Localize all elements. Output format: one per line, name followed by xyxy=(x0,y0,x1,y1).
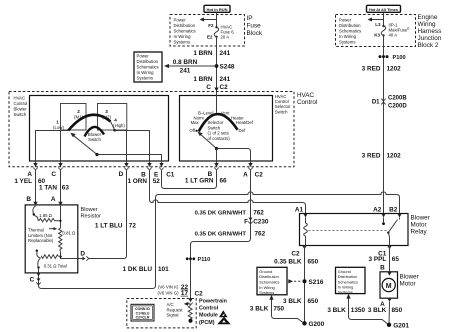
svg-text:66: 66 xyxy=(220,178,228,185)
svg-text:G200: G200 xyxy=(309,321,325,328)
svg-text:3 RED: 3 RED xyxy=(362,65,381,72)
svg-text:Harness: Harness xyxy=(418,28,442,35)
Hot At All Times label xyxy=(367,5,401,12)
ground G200 xyxy=(302,321,306,325)
blower switch wiper xyxy=(70,133,98,156)
Powertrain Control Module (PCM) label xyxy=(199,298,227,326)
wire 1 DK BLU 101 (resistor C to relay B2) xyxy=(39,192,400,289)
power distribution box (left) xyxy=(134,52,162,82)
svg-text:Limiters (Not: Limiters (Not xyxy=(28,233,53,238)
power distribution note (in fuse block) xyxy=(174,18,196,45)
svg-text:C2=CLR: C2=CLR xyxy=(136,316,150,320)
svg-text:1 YEL: 1 YEL xyxy=(14,178,32,185)
wire 1 LT BLU 72 (pin D to resistor D) xyxy=(89,170,127,259)
svg-text:Motor: Motor xyxy=(400,280,416,287)
svg-text:241: 241 xyxy=(220,50,231,57)
svg-text:(1 of 2 sets: (1 of 2 sets xyxy=(208,131,229,136)
svg-text:3 BLK: 3 BLK xyxy=(283,298,302,305)
svg-text:L3: L3 xyxy=(375,22,381,27)
svg-text:Systems: Systems xyxy=(137,76,153,81)
pin letters xyxy=(27,171,263,178)
svg-text:Switch: Switch xyxy=(208,125,221,130)
svg-text:C: C xyxy=(206,84,211,91)
svg-text:A1: A1 xyxy=(295,206,304,213)
svg-text:101: 101 xyxy=(158,266,169,273)
svg-text:1 DK BLU: 1 DK BLU xyxy=(123,266,153,273)
svg-text:IP: IP xyxy=(247,15,253,22)
blower switch contact window M2 xyxy=(98,104,127,131)
svg-text:Systems: Systems xyxy=(259,290,274,295)
Hot In RUN label xyxy=(204,5,230,12)
selector position labels xyxy=(189,111,253,134)
svg-text:Wiring: Wiring xyxy=(418,21,437,28)
selector wiper xyxy=(198,132,219,150)
relay contact A2 xyxy=(383,218,385,223)
svg-text:750: 750 xyxy=(273,306,284,313)
thermal limiter 2 xyxy=(37,252,41,258)
svg-text:B2: B2 xyxy=(389,206,398,213)
svg-text:Switch: Switch xyxy=(14,112,27,117)
svg-text:Systems: Systems xyxy=(338,289,353,294)
svg-text:A2: A2 xyxy=(373,206,382,213)
svg-text:3 RED: 3 RED xyxy=(362,152,381,159)
svg-text:C2: C2 xyxy=(291,251,300,258)
connector C200B / C200D xyxy=(372,96,408,110)
svg-text:0.81 Ω: 0.81 Ω xyxy=(63,231,77,236)
wire 1 ORN 52 (pin B to relay coil A1) xyxy=(150,170,306,214)
blower switch contact arc xyxy=(68,115,110,131)
svg-text:D: D xyxy=(80,250,85,257)
HVAC Control label xyxy=(297,92,317,106)
svg-text:Off: Off xyxy=(189,128,195,133)
wire 3 PPL 65 (relay C1 to blower motor B) xyxy=(389,246,391,272)
svg-text:0.8 BRN: 0.8 BRN xyxy=(173,59,198,66)
svg-text:63: 63 xyxy=(62,184,70,191)
arrow to power distribution note xyxy=(200,18,217,22)
svg-text:Schematics: Schematics xyxy=(259,280,279,285)
arrow to power distribution note xyxy=(368,18,384,22)
blower motor relay box xyxy=(300,214,409,246)
IP fuse block (dashed box) xyxy=(170,15,245,47)
resistor element 0.81 ohm (vertical) xyxy=(59,228,62,251)
svg-text:Power: Power xyxy=(339,18,352,23)
thermal limiter 1 xyxy=(33,206,36,214)
svg-text:1 LT BLU: 1 LT BLU xyxy=(95,223,123,230)
wire (maxifuse feed) xyxy=(383,13,385,27)
svg-text:A/C: A/C xyxy=(167,302,174,307)
svg-text:40 A: 40 A xyxy=(389,33,398,38)
svg-text:Power: Power xyxy=(137,54,150,59)
svg-text:1 BRN: 1 BRN xyxy=(193,50,213,57)
connector pins at HVAC control C1/C2 xyxy=(33,161,252,170)
svg-text:C2: C2 xyxy=(255,171,264,178)
svg-text:762: 762 xyxy=(255,230,266,237)
fuse I/P-1 MaxiFuse 40A xyxy=(374,22,410,38)
svg-text:B: B xyxy=(26,196,31,203)
svg-text:Control: Control xyxy=(297,99,317,106)
svg-text:D: D xyxy=(119,171,124,178)
svg-text:Distribution: Distribution xyxy=(339,23,361,28)
svg-text:3: 3 xyxy=(105,109,108,114)
A/C request signal note xyxy=(167,302,184,318)
svg-text:3 PPL: 3 PPL xyxy=(369,256,387,263)
inline connector at resistor D xyxy=(82,256,88,260)
svg-text:Systems: Systems xyxy=(174,40,190,45)
svg-text:650: 650 xyxy=(308,259,319,266)
svg-text:241: 241 xyxy=(220,76,231,83)
wire 1 BRN 241 (fuse to S248) xyxy=(216,37,218,92)
svg-text:Blower: Blower xyxy=(411,215,430,222)
svg-text:Def: Def xyxy=(239,128,246,133)
svg-text:1 BRN: 1 BRN xyxy=(193,76,213,83)
svg-text:Distribution: Distribution xyxy=(174,23,196,28)
relay movable arm (to B2, NC) xyxy=(388,220,398,234)
svg-text:Switch: Switch xyxy=(88,137,101,142)
svg-text:1350: 1350 xyxy=(351,307,366,314)
selector off contact xyxy=(195,130,197,132)
svg-text:241: 241 xyxy=(180,67,191,74)
svg-text:C2: C2 xyxy=(220,84,229,91)
svg-text:1 TAN: 1 TAN xyxy=(39,184,57,191)
svg-text:Schematics: Schematics xyxy=(137,65,159,70)
svg-text:Request: Request xyxy=(167,307,184,312)
wire: BRN feed into selector arc xyxy=(216,92,218,113)
IP Fuse Block label xyxy=(247,15,263,37)
position labels xyxy=(53,109,125,130)
svg-text:52: 52 xyxy=(153,178,161,185)
svg-text:3 BLK: 3 BLK xyxy=(368,307,387,314)
svg-text:Power: Power xyxy=(174,18,187,23)
selector switch note xyxy=(208,120,231,141)
wire: M2 window to pin D xyxy=(126,130,128,161)
svg-text:3 BLK: 3 BLK xyxy=(327,307,346,314)
ground distribution box (right) xyxy=(336,267,366,294)
resistor element 0.31 ohm total xyxy=(61,251,78,258)
wire 1 LT GRN 66 (selector B to blower switch E) xyxy=(162,170,217,189)
wire: wiper to pin A xyxy=(217,149,251,162)
svg-text:S248: S248 xyxy=(220,63,235,70)
svg-text:Motor: Motor xyxy=(411,222,427,229)
arrow to 0.81 element xyxy=(49,227,57,230)
splice S216 xyxy=(303,279,307,283)
wire 0.35 BLK 650 (relay C2 to S216) xyxy=(304,246,306,324)
svg-text:A: A xyxy=(51,196,56,203)
svg-text:Control: Control xyxy=(199,306,219,312)
svg-text:Resistor: Resistor xyxy=(81,213,102,219)
svg-text:4: 4 xyxy=(114,118,117,123)
selector switch box xyxy=(180,96,273,162)
relay common to C1 xyxy=(388,233,389,246)
svg-text:Selector: Selector xyxy=(208,120,224,125)
PCM internal resistance xyxy=(188,306,192,320)
svg-text:20 A: 20 A xyxy=(221,35,230,40)
svg-text:3 BLK: 3 BLK xyxy=(250,306,269,313)
svg-text:1202: 1202 xyxy=(387,152,402,159)
warning triangles xyxy=(219,310,228,317)
svg-text:Switch: Switch xyxy=(275,109,288,114)
wire: high contact to pin B xyxy=(115,131,150,162)
svg-text:Engine: Engine xyxy=(418,14,438,21)
relay contact B2 xyxy=(399,218,401,220)
svg-text:(Low): (Low) xyxy=(53,125,64,130)
svg-text:M: M xyxy=(386,283,392,290)
svg-text:1 ORN: 1 ORN xyxy=(127,178,147,185)
svg-text:of contacts): of contacts) xyxy=(208,136,231,141)
svg-text:C: C xyxy=(51,171,56,178)
selector switch contact arc xyxy=(199,114,238,131)
svg-text:(PCM): (PCM) xyxy=(199,320,215,326)
svg-text:C230: C230 xyxy=(253,218,269,225)
svg-text:762: 762 xyxy=(253,210,264,217)
svg-text:1.85 Ω: 1.85 Ω xyxy=(39,213,53,218)
dashed link to S216 xyxy=(288,279,302,283)
svg-text:72: 72 xyxy=(129,223,137,230)
svg-text:(V6 VIN K): (V6 VIN K) xyxy=(158,285,179,290)
svg-text:Schematics: Schematics xyxy=(174,29,196,34)
svg-text:Schematics: Schematics xyxy=(338,279,358,284)
blower motor xyxy=(380,272,419,302)
wire: M1 window to pin C xyxy=(60,130,62,161)
svg-text:A: A xyxy=(243,171,248,178)
thermal limiters note xyxy=(28,228,54,244)
svg-text:Blower: Blower xyxy=(400,273,419,280)
svg-text:0.35 DK GRN/WHT: 0.35 DK GRN/WHT xyxy=(195,231,247,237)
wire 3 BLK 750 (ground distribution to G200) xyxy=(272,298,304,323)
wire 3 RED 1202 (maxifuse to relay A2) xyxy=(383,35,385,213)
svg-text:1: 1 xyxy=(56,120,59,125)
engine wiring harness junction block 2 (dashed box) xyxy=(336,15,416,47)
wire 1 YEL 60 (pin A to resistor B) xyxy=(35,170,37,202)
thermal limiter 3 xyxy=(38,258,41,267)
svg-text:C2: C2 xyxy=(195,290,204,297)
svg-text:Block 2: Block 2 xyxy=(418,42,439,49)
svg-text:Ground: Ground xyxy=(338,269,351,274)
svg-text:C: C xyxy=(30,276,35,283)
wire: low contact to pin A xyxy=(36,131,69,162)
svg-text:C1: C1 xyxy=(166,171,175,178)
fuse HVAC Fuse 6 20A (F2-E2) xyxy=(207,23,234,39)
svg-text:D1: D1 xyxy=(372,100,380,106)
svg-text:E2: E2 xyxy=(207,35,213,40)
svg-text:Control: Control xyxy=(14,101,28,106)
svg-text:B: B xyxy=(380,265,385,272)
A/C request arrow xyxy=(184,302,191,306)
svg-text:Powertrain: Powertrain xyxy=(199,298,227,304)
blower switch wiper contact arc xyxy=(85,127,105,137)
wire: wiper pivot to pin E xyxy=(97,155,162,162)
svg-text:1202: 1202 xyxy=(387,65,402,72)
svg-text:Signal: Signal xyxy=(167,313,179,318)
svg-text:Junction: Junction xyxy=(418,35,442,42)
svg-text:Schematics: Schematics xyxy=(339,29,361,34)
svg-text:Thermal: Thermal xyxy=(28,228,44,233)
svg-text:Replaceable): Replaceable) xyxy=(28,238,54,243)
grommet P110 xyxy=(186,257,210,263)
ground distribution box (left) xyxy=(257,267,287,295)
wire 3 BLK 1350 (ground distribution to G201) xyxy=(349,296,388,323)
svg-text:In Wiring: In Wiring xyxy=(174,34,192,39)
svg-text:650: 650 xyxy=(308,298,319,305)
wire 0.8 BRN 241 branch xyxy=(164,59,217,74)
svg-text:Ground: Ground xyxy=(259,269,272,274)
svg-text:850: 850 xyxy=(392,307,403,314)
wire 0.35 DK GRN/WHT 762 (selector A to PCM) xyxy=(191,170,251,299)
svg-text:Block: Block xyxy=(247,30,263,37)
ground G201 xyxy=(387,323,391,327)
svg-text:2: 2 xyxy=(77,109,80,114)
relay coil xyxy=(305,218,307,224)
blower switch contact window M1 xyxy=(61,104,87,131)
svg-text:Vent: Vent xyxy=(221,111,230,116)
svg-text:(V6 VIN G): (V6 VIN G) xyxy=(157,291,179,296)
svg-text:K3: K3 xyxy=(374,32,380,37)
wire (fuse feed) xyxy=(216,13,218,28)
blower switch box xyxy=(30,96,169,162)
svg-text:S216: S216 xyxy=(309,279,324,286)
svg-text:Relay: Relay xyxy=(411,229,428,236)
svg-text:Hot At All Times: Hot At All Times xyxy=(369,8,398,12)
svg-text:In Wiring: In Wiring xyxy=(259,285,274,290)
svg-text:0.35 BLK: 0.35 BLK xyxy=(274,259,302,266)
power distribution note (in junction block) xyxy=(339,18,361,45)
svg-text:In Wiring: In Wiring xyxy=(339,34,357,39)
svg-text:P110: P110 xyxy=(198,257,211,263)
svg-text:C200B: C200B xyxy=(388,96,407,102)
svg-text:F2: F2 xyxy=(208,23,214,28)
svg-text:Distribution: Distribution xyxy=(137,59,159,64)
svg-text:P100: P100 xyxy=(393,55,406,61)
svg-text:(High): (High) xyxy=(113,123,125,128)
svg-text:Blower: Blower xyxy=(14,107,28,112)
wire: wiper to pin B xyxy=(216,149,218,162)
svg-text:Max: Max xyxy=(191,120,200,125)
grommet P100 xyxy=(379,55,406,61)
Engine Wiring Harness Junction Block 2 label xyxy=(418,14,442,49)
svg-text:Systems: Systems xyxy=(339,40,355,45)
svg-text:Fuse: Fuse xyxy=(247,22,262,29)
svg-text:Blower: Blower xyxy=(81,207,98,213)
svg-text:0.35 DK GRN/WHT: 0.35 DK GRN/WHT xyxy=(195,211,247,217)
svg-text:1 LT GRN: 1 LT GRN xyxy=(185,178,214,185)
svg-text:F: F xyxy=(244,218,248,225)
svg-text:Hot In RUN: Hot In RUN xyxy=(206,7,227,12)
wire 1 TAN 63 (pin C to resistor A) xyxy=(60,170,62,202)
HVAC control (dashed box) xyxy=(9,92,294,167)
CONN ID legend xyxy=(131,304,154,321)
svg-text:In Wiring: In Wiring xyxy=(137,70,155,75)
powertrain control module PCM (dashed box) xyxy=(127,299,196,328)
node to pin A wire xyxy=(60,206,62,228)
svg-text:0.31 Ω Total: 0.31 Ω Total xyxy=(44,263,67,268)
splice S248 xyxy=(215,64,219,68)
svg-text:65: 65 xyxy=(392,256,400,263)
relay actuating dashed line xyxy=(309,230,388,232)
resistor element 1.85 ohm xyxy=(35,216,61,222)
svg-text:Heat/Def: Heat/Def xyxy=(236,120,254,125)
svg-text:C200D: C200D xyxy=(388,104,407,110)
svg-text:G201: G201 xyxy=(393,322,409,329)
svg-text:Distribution: Distribution xyxy=(259,274,278,279)
svg-text:Module: Module xyxy=(199,313,218,319)
blower resistor box xyxy=(25,205,78,273)
svg-text:HVAC: HVAC xyxy=(14,96,26,101)
